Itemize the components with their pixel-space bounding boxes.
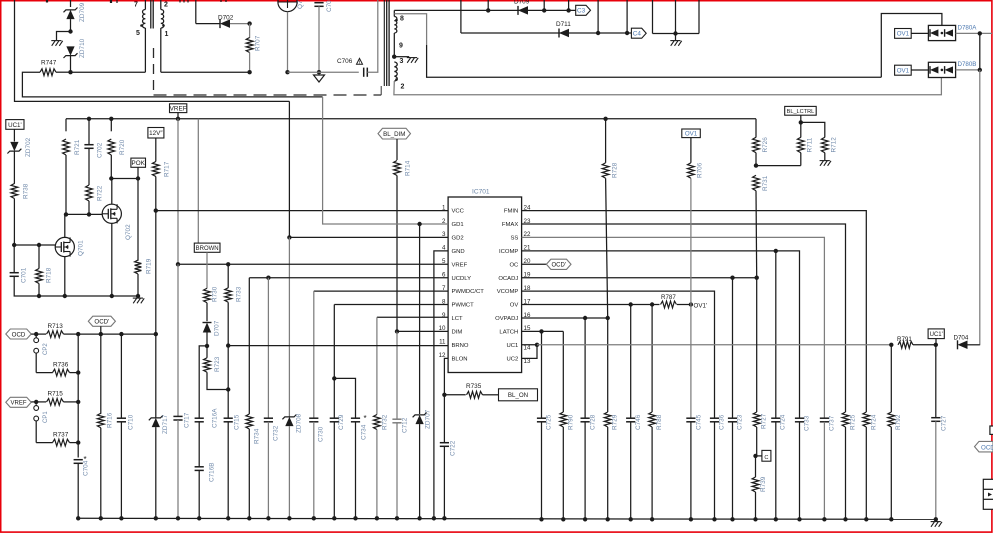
svg-text:C717: C717 (184, 412, 191, 428)
wire gray loop to D780A (394, 14, 426, 45)
stub up x461 / wire2 corner (460, 0, 462, 33)
svg-text:R724: R724 (871, 414, 878, 430)
wire primary return (22, 72, 322, 97)
svg-text:C716A: C716A (212, 408, 219, 428)
svg-text:UC1: UC1 (507, 343, 519, 349)
wire pin17 OV line (522, 304, 660, 306)
chain R792 (890, 345, 892, 412)
svg-text:C729: C729 (338, 414, 345, 430)
chain R790 from pin15 corner (562, 331, 564, 412)
chain R732 from pin9 corner (376, 317, 378, 414)
svg-text:1: 1 (165, 31, 169, 38)
resistor R736 (36, 372, 53, 374)
svg-text:R713: R713 (48, 323, 64, 330)
wire pin23 FMAX to R725 chain (522, 224, 846, 412)
node D702-R707 (247, 21, 251, 25)
flag C3 (576, 5, 591, 15)
resistor R714 (396, 139, 398, 160)
label box UC1' (left) (6, 120, 24, 130)
stub up x569 (568, 0, 570, 10)
svg-text:OCD: OCD (12, 331, 26, 338)
wire pin16 OVPADJ line (522, 317, 608, 319)
label box VREF (top) (170, 104, 187, 113)
svg-text:OV: OV (510, 303, 519, 309)
svg-text:R787: R787 (661, 294, 676, 301)
resistor R738 (13, 151, 15, 184)
svg-text:IC701: IC701 (472, 189, 490, 196)
svg-text:BL_ON: BL_ON (508, 392, 528, 399)
svg-text:OCD': OCD' (551, 263, 565, 269)
transformer T2 secondary winding 3-2 (394, 62, 397, 81)
wire pin19 OCADJ line (522, 277, 757, 279)
wire pin18 VCOMP to C736 chain (522, 291, 715, 418)
svg-text:8: 8 (400, 16, 404, 23)
chain OV1 R706 C745 (682, 129, 701, 138)
svg-text:D780A: D780A (958, 25, 978, 32)
chain C746 from pin17 (630, 305, 632, 419)
transistor Q701 (55, 237, 74, 256)
svg-text:OCD': OCD' (94, 319, 109, 326)
wire pin3 GD2 (from top box line) (288, 101, 290, 237)
svg-text:Q702: Q702 (125, 224, 132, 240)
resistor R707 (249, 24, 251, 38)
svg-text:13: 13 (524, 358, 531, 365)
resistor R718 (38, 245, 40, 269)
svg-text:ZD717: ZD717 (162, 414, 169, 434)
svg-text:2: 2 (401, 84, 405, 91)
svg-text:Q7: Q7 (297, 0, 304, 9)
label box OV1 (bottom) (895, 65, 912, 75)
wire pin10 DIM line (397, 330, 448, 332)
svg-text:C715: C715 (234, 414, 241, 430)
chain ZD717 below VCC bus (155, 334, 157, 418)
svg-text:R712: R712 (831, 137, 838, 153)
bus OCD node (76, 332, 80, 336)
chain R712 (801, 122, 825, 137)
stub up x488 (487, 0, 489, 10)
wire Q701 gate (14, 244, 55, 246)
svg-text:OV1': OV1' (694, 303, 708, 310)
svg-text:UCDLY: UCDLY (452, 276, 472, 282)
svg-text:D780B: D780B (958, 61, 977, 68)
svg-text:*: * (364, 414, 367, 423)
svg-text:R725: R725 (850, 414, 857, 430)
svg-text:C737: C737 (829, 415, 836, 431)
resistor R717 (155, 138, 157, 162)
svg-text:OV1: OV1 (685, 131, 698, 138)
svg-text:R736: R736 (53, 362, 69, 369)
svg-text:R714: R714 (405, 160, 412, 176)
flag OCD (left) (6, 329, 31, 339)
svg-text:R723: R723 (214, 356, 221, 372)
chain C717 from VREF vertical (177, 264, 179, 416)
chain C725 from pin15 (541, 331, 543, 418)
ground group right of C4 (652, 0, 654, 34)
wire gray to BROWN (197, 119, 199, 243)
flag OCD' (88, 316, 115, 326)
chain R721 (65, 119, 67, 132)
svg-text:LATCH: LATCH (499, 329, 518, 335)
wire pin21 ICOMP line (522, 251, 800, 418)
label box BL_ON (499, 389, 538, 401)
transformer T2 secondary winding 8-9 (394, 17, 397, 34)
svg-text:11: 11 (439, 339, 446, 346)
svg-text:R728: R728 (612, 162, 619, 178)
capacitor C745 (686, 417, 695, 419)
svg-text:C4: C4 (633, 31, 642, 38)
chain C728 from pin16 (584, 318, 586, 418)
svg-text:BRNO: BRNO (452, 343, 469, 349)
chain R734 from pin6 corner (248, 278, 250, 414)
chain ZD707 from pin2 node (419, 224, 421, 414)
svg-text:C70: C70 (326, 0, 333, 12)
wire UC1 net long (gray) (537, 344, 891, 346)
svg-text:R717: R717 (164, 161, 171, 177)
cut small box right edge (990, 426, 993, 434)
svg-text:CP1: CP1 (43, 411, 49, 423)
svg-text:C730: C730 (318, 426, 325, 442)
resistor R739 (755, 456, 757, 477)
svg-text:C733: C733 (804, 415, 811, 431)
svg-text:R792: R792 (895, 414, 902, 430)
svg-text:BL_DIM: BL_DIM (383, 131, 405, 138)
chain C702 R722 (87, 117, 91, 121)
bottom ground rail (78, 518, 936, 519)
transformer T2 center tap pin 3 with ground (392, 55, 396, 59)
svg-text:C725: C725 (546, 414, 553, 430)
svg-text:R706: R706 (697, 162, 704, 178)
svg-text:R726: R726 (762, 137, 769, 153)
svg-text:7: 7 (134, 2, 138, 9)
chain C730 from pin7 corner (313, 291, 315, 418)
chain R788 from pin17 (651, 305, 653, 413)
chain C724 from pin21 node (775, 251, 777, 418)
chain R716 (100, 334, 102, 414)
svg-text:12V″: 12V″ (149, 130, 163, 137)
svg-text:R715: R715 (48, 391, 64, 398)
svg-text:OCADJ: OCADJ (498, 276, 518, 282)
wire D780A to edge (956, 32, 992, 34)
svg-text:VCC: VCC (452, 209, 465, 215)
svg-text:BROWN: BROWN (196, 246, 219, 252)
chain R726 R731 from VREF rail (755, 119, 757, 138)
capacitor C701 (13, 245, 15, 273)
svg-text:C727: C727 (941, 415, 948, 431)
wire pin5 VREF line (178, 263, 448, 265)
svg-text:OC: OC (509, 262, 519, 268)
top cut stub B (110, 0, 112, 3)
top cut stub A (46, 0, 48, 3)
capacitor C712 (392, 418, 401, 420)
svg-text:R747: R747 (41, 60, 57, 67)
svg-text:2: 2 (164, 2, 168, 9)
svg-text:C704: C704 (83, 460, 90, 476)
svg-text:C3: C3 (577, 8, 586, 15)
wire pin22 SS to C737 chain (gray) (522, 237, 825, 418)
wire gate rail Q702 (66, 213, 102, 215)
capacitor C70x (cut at top) (314, 2, 323, 4)
svg-text:R730: R730 (212, 286, 219, 302)
svg-text:FMIN: FMIN (504, 209, 518, 215)
diode pair D780A (928, 25, 955, 40)
svg-text:GND: GND (452, 249, 465, 255)
svg-text:OV1: OV1 (897, 31, 910, 38)
wire C706 to core riser (367, 0, 378, 72)
wire D780A junction down to D780B junction (979, 33, 981, 69)
label box UC1' (right) (928, 329, 944, 339)
chain R720 (109, 117, 113, 121)
zener ZD709 (70, 0, 72, 7)
wire pin8 PWMCT line (334, 304, 448, 306)
svg-text:GD1: GD1 (452, 222, 464, 228)
svg-text:UC1': UC1' (8, 122, 22, 129)
svg-text:C: C (764, 455, 768, 461)
wire R747 to transformer (71, 71, 146, 73)
resistor R737 (36, 442, 53, 444)
svg-text:D704: D704 (954, 335, 969, 342)
wire POK junction (137, 167, 139, 178)
svg-text:OCD: OCD (981, 445, 993, 452)
chain R719 (137, 179, 139, 261)
wire OCD' net line (78, 333, 156, 335)
label box BL_LCTRL (785, 106, 817, 115)
wire D780B to right junction (956, 69, 980, 71)
resistor R723 (206, 346, 208, 358)
cut box right edge (legend) (983, 479, 993, 509)
svg-text:C728: C728 (590, 414, 597, 430)
wire net D709 output (394, 9, 575, 11)
wire Q7 drain down (287, 12, 289, 73)
svg-text:VREF: VREF (452, 262, 468, 268)
svg-text:R721: R721 (74, 139, 81, 155)
node junction ZD709-ZD710 (68, 29, 72, 33)
wire VCC bus middle (155, 211, 157, 335)
svg-text:ZD707: ZD707 (425, 409, 432, 429)
svg-text:D711: D711 (556, 21, 571, 28)
wire pin20 OC to OCD' flag (522, 263, 547, 265)
svg-text:R739: R739 (760, 476, 767, 492)
capacitor C727 (935, 345, 937, 418)
svg-text:BL_LCTRL: BL_LCTRL (787, 109, 815, 115)
wire net D711 / C4 (461, 32, 632, 34)
wire pin11 BRNO line (228, 345, 448, 347)
wire VREF vertical (gray) (177, 119, 179, 264)
svg-text:DIM: DIM (452, 329, 463, 335)
wire pin2 to D780B (gray) (394, 77, 942, 95)
flag OCD' at pin20 (546, 259, 571, 269)
jumper CP1 (31, 401, 46, 403)
svg-text:ICOMP: ICOMP (499, 249, 518, 255)
wire pin12 BLON drop (444, 358, 448, 394)
wire pin15 LATCH line (522, 330, 564, 332)
svg-text:ZD708: ZD708 (296, 413, 303, 433)
svg-text:PWMDC/CT: PWMDC/CT (452, 289, 485, 295)
top section outer box left edge (15, 0, 290, 101)
capacitor C737 (820, 417, 829, 419)
chain R727 with jumper C and R739 (756, 278, 758, 412)
svg-text:C701: C701 (21, 267, 28, 283)
svg-text:VREF: VREF (10, 401, 26, 407)
svg-text:R733: R733 (236, 286, 243, 302)
svg-text:C710: C710 (128, 414, 135, 430)
zener ZD702 (13, 129, 15, 141)
transformer T2 core (383, 0, 385, 86)
wire right edge net down to UC1 line (979, 70, 981, 345)
svg-text:ZD709: ZD709 (79, 2, 86, 22)
svg-text:C722: C722 (450, 440, 457, 456)
svg-text:C723: C723 (737, 414, 744, 430)
svg-text:5: 5 (136, 30, 140, 37)
svg-text:C706: C706 (337, 58, 353, 65)
svg-text:Q701: Q701 (78, 240, 85, 256)
svg-text:SS: SS (510, 236, 518, 242)
svg-text:14: 14 (524, 345, 531, 352)
svg-text:C732: C732 (273, 425, 280, 441)
open-triangle ground under rail (288, 71, 359, 73)
ground of Q70x rail (37, 294, 41, 298)
svg-text:C734: C734 (361, 424, 368, 440)
wire pin7 PWMDC/CT line (314, 290, 448, 292)
transistor Q7xx (cut at top) (278, 0, 297, 12)
svg-text:R738: R738 (23, 183, 30, 199)
svg-text:C736: C736 (719, 414, 726, 430)
branch C734 (334, 378, 355, 418)
wire pin14 UC1 loop to pin13 UC2 (522, 345, 537, 359)
svg-text:R788: R788 (656, 414, 663, 430)
svg-text:D707: D707 (214, 320, 221, 336)
svg-text:ZD702: ZD702 (25, 137, 32, 157)
wire winding1 to D702 rail (161, 71, 250, 73)
svg-text:UC2: UC2 (507, 356, 519, 362)
transistor Q702 (102, 204, 121, 223)
capacitor C704 (74, 459, 83, 461)
svg-text:LCT: LCT (452, 316, 464, 322)
wire pin6 UCDLY line (248, 277, 250, 279)
svg-text:R718: R718 (46, 267, 53, 283)
wire pin9 LCT line (377, 316, 448, 318)
svg-text:UC1': UC1' (930, 332, 943, 338)
svg-text:R727: R727 (761, 413, 768, 429)
svg-text:VREF: VREF (170, 106, 187, 113)
zener ZD710 (66, 46, 74, 55)
svg-text:BLON: BLON (452, 356, 468, 362)
svg-text:CP2: CP2 (43, 343, 49, 355)
svg-text:R719: R719 (146, 258, 153, 274)
svg-text:R716: R716 (107, 412, 114, 428)
label box POK (131, 158, 146, 167)
chain R728 R729 through pin16 (603, 117, 607, 121)
isolation boundary dashed line (153, 48, 155, 95)
IC U IC701 body (448, 197, 521, 373)
flag VREF (left) (6, 397, 31, 407)
cut flag OCD right edge (975, 441, 993, 452)
svg-text:POK: POK (132, 160, 146, 167)
stub up x544 (543, 0, 545, 10)
flag BL_DIM (378, 128, 411, 139)
diode pair D780B (928, 62, 955, 77)
svg-text:PWMCT: PWMCT (452, 303, 475, 309)
svg-text:OV1: OV1 (897, 68, 910, 75)
chain BROWN R730 D707 (194, 243, 220, 252)
wire R731 node to R711 (756, 165, 801, 167)
svg-text:R720: R720 (119, 139, 126, 155)
svg-text:R711: R711 (807, 137, 814, 152)
wire pin1 VCC line (156, 210, 448, 212)
chain C710 (120, 334, 122, 418)
chain R711 (800, 115, 802, 122)
resistor R735 (444, 394, 465, 396)
resistor R725 (842, 412, 849, 427)
svg-text:C702: C702 (97, 142, 104, 158)
flag C4 (631, 28, 646, 38)
svg-text:R737: R737 (53, 432, 69, 439)
svg-text:VCOMP: VCOMP (497, 289, 519, 295)
svg-text:R732: R732 (382, 414, 389, 430)
wire R717 to VCC line (155, 177, 157, 211)
wire pin4 GND drop (434, 251, 448, 518)
resistor R724 (863, 412, 870, 427)
top cut stub C (179, 0, 181, 3)
chain C723 from pin19 node (732, 278, 734, 419)
svg-text:OVPADJ: OVPADJ (495, 316, 518, 322)
svg-text:R735: R735 (466, 383, 482, 390)
VREF rail (66, 118, 756, 120)
svg-text:R790: R790 (568, 414, 575, 430)
chain ZD708 below pin3 node (288, 237, 290, 417)
top cut stub D (220, 0, 222, 2)
wire pin2 GD1 (gray from top) (323, 97, 449, 224)
chain C715 below pin11 node (227, 346, 229, 390)
branch to C716A C716B (199, 346, 207, 418)
wire VREF box lead (177, 113, 179, 119)
svg-text:ZD710: ZD710 (79, 38, 86, 58)
chain R733 (227, 264, 229, 288)
svg-text:R734: R734 (254, 428, 261, 444)
svg-text:R707: R707 (255, 35, 262, 51)
wire pin24 FMIN to R724 chain (522, 211, 867, 412)
wire R714 down to DIM (396, 176, 398, 332)
ground stub left of zeners (57, 32, 71, 41)
node x598 on wire2 (596, 31, 600, 35)
chain C732 from pin6 node (267, 278, 269, 419)
transformer T primary core (150, 0, 152, 29)
svg-text:C745: C745 (696, 414, 703, 430)
wire DIM chain to C712 (396, 331, 398, 419)
jumper box C (756, 455, 762, 457)
node x627 on wire2 (625, 31, 629, 35)
svg-text:C712: C712 (402, 417, 409, 433)
chain C729 from pin8 corner (333, 305, 335, 379)
svg-text:R729: R729 (612, 414, 619, 430)
svg-text:C716B: C716B (209, 462, 216, 482)
svg-text:3: 3 (400, 58, 404, 65)
svg-text:R722: R722 (97, 185, 104, 201)
ground at rail right end (931, 521, 941, 523)
svg-text:FMAX: FMAX (502, 222, 518, 228)
svg-text:C746: C746 (635, 414, 642, 430)
capacitor C736 (710, 417, 719, 419)
label box OV1 (top) (895, 29, 912, 39)
capacitor C733 (795, 417, 804, 419)
capacitor C722 (443, 395, 445, 443)
label box 12V' (148, 128, 164, 139)
jumper CP2 (31, 333, 46, 335)
svg-text:9: 9 (399, 43, 403, 50)
svg-text:D709: D709 (514, 0, 530, 6)
svg-text:GD2: GD2 (452, 236, 464, 242)
svg-text:R731: R731 (762, 175, 769, 191)
svg-text:C724: C724 (780, 414, 787, 430)
